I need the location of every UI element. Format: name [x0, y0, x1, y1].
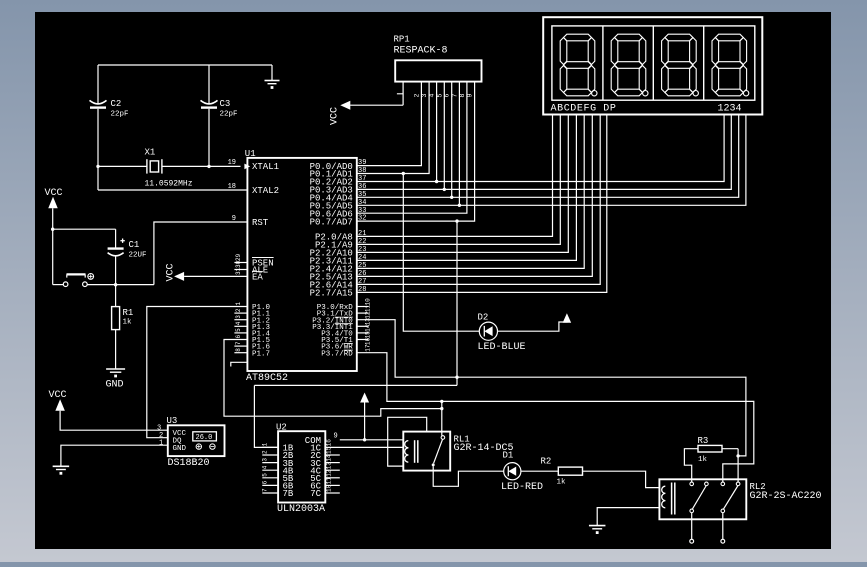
- wire D1 to R2: [521, 470, 558, 472]
- driver U2 body: [278, 431, 325, 502]
- wire P0.0 to RP1: [357, 82, 422, 166]
- wire P0.7 drop: [456, 221, 458, 385]
- svg-text:1: 1: [262, 442, 269, 446]
- wire P2.4 to display segment: [357, 115, 584, 269]
- relay RL1 body: [403, 432, 450, 471]
- RL2 top pin stubs: [691, 479, 693, 482]
- svg-text:16: 16: [365, 337, 372, 345]
- RP1 pin1 to VCC: [402, 82, 404, 106]
- svg-text:1k: 1k: [123, 319, 133, 327]
- svg-text:RP1: RP1: [394, 35, 410, 45]
- node P0.7 branch: [455, 219, 458, 222]
- svg-text:RST: RST: [252, 218, 269, 228]
- node R3 junction: [736, 454, 739, 457]
- wire button left: [53, 284, 64, 286]
- svg-text:5: 5: [235, 328, 242, 332]
- svg-text:1k: 1k: [698, 456, 708, 464]
- node P3.7-P1.5 junction: [440, 400, 443, 403]
- wire XTAL1: [98, 165, 147, 167]
- svg-text:3: 3: [235, 315, 242, 319]
- wire P2.6 to display segment: [357, 115, 600, 285]
- svg-text:3: 3: [421, 94, 428, 98]
- led D2: [479, 322, 497, 340]
- resistor R2: [558, 467, 582, 475]
- resistor-pack RP1 body: [395, 60, 481, 81]
- svg-text:1k: 1k: [557, 479, 567, 487]
- U2 left pin stubs: [262, 446, 278, 448]
- ground top-right: [271, 65, 273, 81]
- wire VCC to C1: [53, 228, 116, 230]
- svg-text:GND: GND: [173, 445, 187, 453]
- resistor R3: [698, 445, 722, 452]
- svg-text:5: 5: [262, 473, 269, 477]
- capacitor C1: [115, 229, 117, 248]
- wire P1.5 bus: [224, 340, 442, 417]
- svg-text:17: 17: [365, 344, 372, 352]
- svg-text:12: 12: [365, 311, 372, 319]
- wire RL2 coil to ground: [597, 508, 659, 526]
- U1 right pin stubs: [357, 306, 369, 308]
- node P0.7-P3.2 junction: [455, 376, 458, 379]
- ground R1: [106, 368, 125, 370]
- ground U3: [53, 465, 70, 467]
- svg-text:22pF: 22pF: [220, 111, 238, 119]
- node C1-R1 junction: [114, 283, 117, 286]
- svg-text:1234: 1234: [718, 103, 742, 114]
- wire P2.2 to display segment: [357, 115, 569, 253]
- svg-text:DS18B20: DS18B20: [168, 458, 210, 469]
- wire RST riser: [154, 222, 248, 285]
- svg-text:7: 7: [262, 488, 269, 492]
- node XTAL1-net junctions: [96, 165, 99, 168]
- svg-text:22pF: 22pF: [111, 111, 129, 119]
- display inner box: [552, 26, 755, 100]
- svg-text:RESPACK-8: RESPACK-8: [394, 46, 448, 57]
- svg-text:C3: C3: [220, 99, 231, 109]
- RL1 coil: [405, 441, 409, 448]
- U3 temperature display: [193, 432, 217, 441]
- svg-text:10: 10: [326, 484, 333, 492]
- svg-text:12: 12: [326, 469, 333, 477]
- svg-text:31: 31: [235, 267, 242, 275]
- svg-text:14: 14: [326, 454, 333, 462]
- wire P3.2 net: [357, 320, 746, 456]
- svg-text:ABCDEFG DP: ABCDEFG DP: [551, 103, 617, 114]
- mcu U1 body: [247, 158, 356, 371]
- wire crystal top: [98, 64, 272, 66]
- wire P1.0 to DS18B20 DQ: [147, 307, 248, 438]
- svg-text:2: 2: [413, 94, 420, 98]
- svg-text:13: 13: [326, 462, 333, 470]
- wire U2-1B riser: [254, 384, 457, 386]
- svg-text:VCC: VCC: [166, 263, 177, 281]
- wire RL1 switch common: [441, 401, 443, 435]
- svg-text:11.0592MHz: 11.0592MHz: [145, 180, 193, 189]
- RL2 switch 2: [721, 482, 725, 486]
- svg-text:7: 7: [451, 94, 458, 98]
- relay RL2 body: [659, 479, 746, 519]
- wire R2 to RL2 coil: [583, 471, 660, 487]
- svg-text:GND: GND: [106, 380, 124, 391]
- svg-text:5: 5: [436, 94, 443, 98]
- svg-text:9: 9: [467, 94, 474, 98]
- svg-text:30: 30: [235, 260, 242, 268]
- svg-text:11: 11: [365, 304, 372, 312]
- svg-text:11: 11: [326, 477, 333, 485]
- svg-text:7C: 7C: [310, 489, 321, 499]
- crystal X1: [146, 159, 148, 173]
- wire P0.3 to RP1 and display digit 2: [357, 115, 732, 190]
- wire P0.6 to RP1: [357, 82, 467, 214]
- wire P2.3 to display segment: [357, 115, 577, 261]
- display outer box: [543, 17, 762, 114]
- wire R3 left: [684, 449, 698, 480]
- pin arrow XTAL1: [244, 164, 250, 170]
- svg-text:6: 6: [235, 335, 242, 339]
- wire R3 right: [722, 448, 738, 450]
- wire P2.0 to display segment: [357, 115, 553, 237]
- svg-text:1: 1: [235, 302, 242, 306]
- svg-text:26.0: 26.0: [196, 434, 213, 442]
- led D1: [504, 463, 521, 480]
- svg-text:LED-RED: LED-RED: [501, 482, 543, 493]
- U1 left pin stubs: [234, 262, 247, 264]
- capacitor C2: [97, 65, 99, 104]
- svg-text:P1.7: P1.7: [252, 350, 270, 358]
- resistor R1: [115, 285, 117, 307]
- svg-text:4: 4: [235, 321, 242, 325]
- display digit 1: [564, 34, 592, 41]
- wire U2 COM to RL1: [340, 439, 404, 441]
- svg-text:C1: C1: [129, 240, 140, 250]
- svg-text:16: 16: [326, 439, 333, 447]
- svg-text:U3: U3: [167, 416, 178, 426]
- svg-text:3: 3: [262, 458, 269, 462]
- svg-text:R1: R1: [123, 308, 134, 318]
- svg-text:8: 8: [235, 348, 242, 352]
- sensor U3 body: [168, 425, 225, 456]
- svg-text:4: 4: [262, 465, 269, 469]
- capacitor C3: [208, 65, 210, 104]
- svg-text:LED-BLUE: LED-BLUE: [478, 342, 526, 353]
- svg-text:6: 6: [262, 480, 269, 484]
- wire P3.7 net: [357, 353, 754, 480]
- wire P2.7 to display segment: [357, 115, 607, 293]
- svg-text:9: 9: [334, 433, 338, 441]
- U2 right pin stubs: [325, 454, 340, 456]
- svg-text:7: 7: [235, 341, 242, 345]
- svg-text:EA: EA: [252, 273, 263, 283]
- svg-text:VCC: VCC: [45, 188, 63, 199]
- svg-text:ULN2003A: ULN2003A: [277, 504, 325, 515]
- svg-text:VCC: VCC: [330, 107, 341, 125]
- svg-text:C2: C2: [111, 99, 122, 109]
- wire D2 to VCC: [498, 322, 567, 332]
- wire U2 1C to RL1: [325, 446, 403, 448]
- svg-text:7B: 7B: [283, 489, 294, 499]
- svg-text:U2: U2: [276, 423, 287, 433]
- push button: [63, 282, 68, 287]
- svg-text:2: 2: [262, 450, 269, 454]
- node COM-VCC junction: [363, 438, 366, 441]
- display cell dividers: [602, 26, 604, 100]
- svg-text:D1: D1: [503, 451, 514, 461]
- wire P2.1 to display segment: [357, 115, 561, 245]
- wire RL1 to D1: [433, 466, 504, 486]
- node VCC-C1 junction: [51, 228, 54, 231]
- svg-text:XTAL2: XTAL2: [252, 186, 279, 196]
- display digit 3: [665, 34, 693, 41]
- svg-text:18: 18: [228, 183, 236, 191]
- RL2 bottom terminals: [691, 513, 693, 540]
- svg-text:15: 15: [365, 331, 372, 339]
- svg-text:AT89C52: AT89C52: [246, 373, 288, 384]
- svg-text:9: 9: [232, 215, 236, 223]
- wire P0.1 to D2: [403, 174, 479, 332]
- svg-text:U1: U1: [245, 149, 256, 159]
- wire P2.5 to display segment: [357, 115, 593, 277]
- svg-text:P3.7/RD: P3.7/RD: [321, 350, 353, 358]
- wire U1 bottom stub: [231, 362, 247, 366]
- wire button right to RST riser: [87, 284, 154, 286]
- wire P0.7 to RP1: [357, 82, 475, 222]
- svg-text:22UF: 22UF: [129, 252, 147, 260]
- svg-text:VCC: VCC: [49, 390, 67, 401]
- wire P0.5 to RP1 and display digit 4: [357, 115, 746, 206]
- power VCC at D2: [563, 313, 572, 323]
- svg-text:X1: X1: [145, 148, 156, 158]
- svg-text:P0.7/AD7: P0.7/AD7: [310, 217, 353, 227]
- RL2 coil: [662, 486, 666, 493]
- ground RL2: [589, 525, 606, 527]
- wire XTAL2: [98, 189, 247, 191]
- svg-text:P2.7/A15: P2.7/A15: [310, 289, 353, 299]
- svg-text:29: 29: [235, 253, 242, 261]
- RL1 switch: [441, 436, 445, 440]
- svg-text:19: 19: [228, 159, 236, 167]
- svg-text:R2: R2: [541, 457, 552, 467]
- svg-text:XTAL1: XTAL1: [252, 162, 279, 172]
- svg-text:G2R-2S-AC220: G2R-2S-AC220: [750, 491, 822, 502]
- wire P0.1 to RP1: [357, 82, 429, 174]
- svg-text:R3: R3: [698, 436, 709, 446]
- svg-text:13: 13: [365, 318, 372, 326]
- svg-text:2: 2: [235, 308, 242, 312]
- svg-text:14: 14: [365, 324, 372, 332]
- svg-text:D2: D2: [478, 313, 489, 323]
- wire P0.4 to RP1 and display digit 3: [357, 115, 739, 198]
- node P0.1 branch: [402, 172, 405, 175]
- svg-text:1: 1: [159, 439, 163, 447]
- wire RL1 coil loop: [388, 417, 427, 466]
- power VCC at COM: [360, 393, 369, 403]
- display digit 4: [715, 34, 743, 41]
- RL2 switch 1: [690, 482, 694, 486]
- display digit 2: [615, 34, 643, 41]
- svg-text:10: 10: [365, 298, 372, 306]
- wire U3 GND: [61, 445, 168, 466]
- wire P0.2 to RP1 and display digit 1: [357, 115, 724, 182]
